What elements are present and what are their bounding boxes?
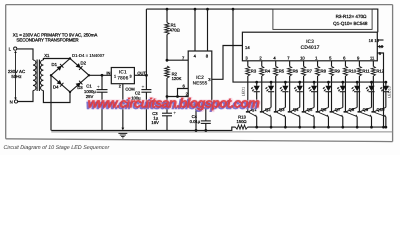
wire IC3 pin 6 to R10 xyxy=(344,61,346,67)
label Q7 xyxy=(335,107,341,112)
LED6 xyxy=(322,82,331,107)
svg-text:SECONDARY TRANSFORMER: SECONDARY TRANSFORMER xyxy=(16,37,79,42)
svg-text:+: + xyxy=(97,84,100,90)
terminal L xyxy=(9,47,17,52)
svg-text:150Ω: 150Ω xyxy=(236,119,246,124)
label R3-R12= 470 xyxy=(336,14,367,19)
wire IC3 pin 15 stub xyxy=(377,39,383,41)
svg-text:IC3: IC3 xyxy=(306,39,314,45)
wire IC3 pin 11 to R12 xyxy=(372,61,374,67)
note box R3-R12 Q1-Q10 xyxy=(273,9,372,29)
svg-text:+: + xyxy=(141,84,144,90)
label R2 120K xyxy=(172,71,182,81)
label IC3 output pin 4 xyxy=(273,56,276,61)
node R1 R2 pin7 junction xyxy=(166,59,169,62)
svg-text:R9: R9 xyxy=(335,68,341,73)
node LED1 anode xyxy=(255,81,258,84)
label IN pin 1 xyxy=(106,71,116,79)
svg-text:120K: 120K xyxy=(172,76,182,81)
label Q10 xyxy=(377,107,386,112)
LED7 xyxy=(337,82,346,107)
svg-text:Circuit Diagram of 10 Stage LE: Circuit Diagram of 10 Stage LED Sequence… xyxy=(4,145,110,151)
wire IC2 pin 4 to rail xyxy=(194,8,197,51)
node LED10 anode xyxy=(384,81,387,84)
bridge vertex junction dots xyxy=(50,57,90,93)
label Q1-Q10= BC548 xyxy=(333,21,368,26)
capacitor C3 xyxy=(162,97,176,131)
label Q8 xyxy=(349,107,355,112)
svg-text:IC2: IC2 xyxy=(196,75,204,81)
ground symbol xyxy=(118,128,127,138)
wire +6V to LED anode rail xyxy=(233,9,386,82)
resistor R1 xyxy=(165,9,169,60)
node Q7 emitter xyxy=(341,126,344,129)
node Q3 emitter xyxy=(284,126,287,129)
label IC3 output pin 3 xyxy=(245,56,248,61)
wire IC3 pin 4 to R5 xyxy=(275,61,277,67)
wire IC3 pin 5 to R9 xyxy=(331,61,333,67)
transistor Q4 xyxy=(288,107,301,127)
label R7 xyxy=(307,68,313,73)
node Q5 emitter xyxy=(313,126,316,129)
label D3 xyxy=(77,85,83,90)
label COM pin 2 xyxy=(119,85,135,92)
+6V vertical wire xyxy=(145,9,147,90)
LED4 xyxy=(293,82,302,107)
label R8 xyxy=(321,68,327,73)
svg-text:R3: R3 xyxy=(251,68,257,73)
node LED9 anode xyxy=(370,81,373,84)
svg-text:R7: R7 xyxy=(307,68,313,73)
svg-text:470Ω: 470Ω xyxy=(170,27,180,32)
wire IC3 pin 9 to R11 xyxy=(358,61,360,67)
label R13 150 xyxy=(236,114,246,124)
node Q4 emitter xyxy=(298,126,301,129)
node LED5 anode xyxy=(313,81,316,84)
label pin 3 xyxy=(208,77,211,82)
svg-text:R5: R5 xyxy=(279,68,285,73)
svg-text:Q2: Q2 xyxy=(265,107,271,112)
diode D1 xyxy=(57,64,64,71)
watermark xyxy=(86,96,260,112)
svg-text:Q3: Q3 xyxy=(279,107,285,112)
svg-text:2: 2 xyxy=(119,85,121,89)
wire N to transformer primary bottom xyxy=(18,91,33,102)
label Q1 xyxy=(251,107,257,112)
diode D3 xyxy=(76,81,83,88)
svg-text:7806: 7806 xyxy=(117,76,128,82)
svg-text:R12: R12 xyxy=(376,68,384,73)
transformer X1 secondary winding xyxy=(40,60,43,91)
node LED2 anode xyxy=(270,81,273,84)
resistor R4 xyxy=(260,66,264,111)
svg-text:R6: R6 xyxy=(293,68,299,73)
mains arrow line between L and N xyxy=(14,51,17,100)
label IC3 output pin 1 xyxy=(315,56,318,61)
node LED8 anode xyxy=(356,81,359,84)
svg-text:IN: IN xyxy=(106,71,110,76)
label C1 1000u 25V xyxy=(84,83,96,99)
wire L to transformer primary top xyxy=(17,49,33,60)
label R3 xyxy=(251,68,257,73)
node R1 top xyxy=(166,8,169,11)
+6V top supply rail xyxy=(146,9,377,32)
svg-text:Q1-Q10= BC548: Q1-Q10= BC548 xyxy=(333,21,368,26)
label D2 xyxy=(81,60,87,65)
node LED7 anode xyxy=(341,81,344,84)
svg-text:COM: COM xyxy=(125,86,134,91)
label IC3 output pin 5 xyxy=(329,56,332,61)
LED5 xyxy=(308,82,317,107)
wire secondary top to bridge top vertex xyxy=(43,59,70,61)
svg-text:R4: R4 xyxy=(265,68,271,73)
wire IC3 pin 3 to R3 xyxy=(247,61,249,67)
resistor R10 xyxy=(343,66,347,111)
wire IC3 pin 2 to R4 xyxy=(261,61,263,67)
svg-text:C1: C1 xyxy=(86,83,92,88)
svg-text:D3: D3 xyxy=(77,85,83,90)
svg-text:11: 11 xyxy=(370,56,375,61)
transformer note text xyxy=(13,32,98,42)
node Q6 emitter xyxy=(327,126,330,129)
node Q1 emitter xyxy=(255,126,258,129)
transistor Q8 xyxy=(344,107,358,127)
node Q10 emitter xyxy=(384,126,387,129)
transformer X1 core xyxy=(37,60,39,92)
transistor Q6 xyxy=(316,107,330,127)
label Q9 xyxy=(363,107,369,112)
resistor R11 xyxy=(357,66,361,111)
ground rail left section xyxy=(51,127,235,130)
svg-text:10: 10 xyxy=(300,56,305,61)
svg-text:0.01µ: 0.01µ xyxy=(190,119,201,124)
wire to IC2 pin 6 xyxy=(178,84,189,97)
label Q6 xyxy=(321,107,327,112)
LED9 xyxy=(365,82,374,107)
svg-text:50Hz: 50Hz xyxy=(11,74,21,79)
node Q2 emitter xyxy=(270,126,273,129)
node LED rail feed xyxy=(232,8,235,11)
label IC3 output pin 6 xyxy=(343,56,346,61)
counter IC3 CD4017 box xyxy=(242,32,377,61)
svg-text:R3-R12= 470Ω: R3-R12= 470Ω xyxy=(336,14,367,19)
label pin 4 xyxy=(194,53,197,58)
svg-text:R8: R8 xyxy=(321,68,327,73)
wire IC3 pin 13 stub xyxy=(377,46,383,48)
svg-text:16: 16 xyxy=(369,38,374,43)
capacitor C4 xyxy=(201,105,211,132)
label C3 1u 16V xyxy=(151,111,159,125)
wire IC1 OUT to +6V node xyxy=(134,74,147,77)
label OUT pin 3 xyxy=(129,71,146,79)
label D1 xyxy=(52,62,58,67)
resistor R12 xyxy=(371,66,375,111)
svg-text:CD4017: CD4017 xyxy=(300,45,319,51)
svg-text:Q9: Q9 xyxy=(363,107,369,112)
svg-text:Q6: Q6 xyxy=(321,107,327,112)
label R12 xyxy=(376,68,384,73)
label pin 16 xyxy=(369,38,374,43)
wire junction to IC2 pin 2 xyxy=(166,91,189,98)
label C4 0.01u xyxy=(190,114,201,124)
transistor Q5 xyxy=(302,107,315,127)
svg-text:Q5: Q5 xyxy=(307,107,313,112)
svg-text:Q8: Q8 xyxy=(349,107,355,112)
resistor R2 xyxy=(165,66,169,97)
resistor R7 xyxy=(302,66,306,111)
LED2 xyxy=(265,82,274,107)
transistor Q10 xyxy=(371,107,386,127)
wire IC3 pin 8 stub to ground xyxy=(377,53,385,129)
caption text xyxy=(4,145,110,151)
wire IC3 pin 10 to R7 xyxy=(303,61,305,67)
diode D4 xyxy=(57,80,64,87)
node Q9 emitter xyxy=(370,126,373,129)
label pin 15 xyxy=(374,38,379,43)
svg-text:R10: R10 xyxy=(348,68,356,73)
label Q2 xyxy=(265,107,271,112)
node Q8 emitter xyxy=(356,126,359,129)
label Q5 xyxy=(307,107,313,112)
svg-text:3: 3 xyxy=(129,75,131,79)
label IC3 output pin 11 xyxy=(370,56,375,61)
wire IC1 COM to ground xyxy=(122,84,124,129)
regulator IC1 7806 box xyxy=(111,68,134,84)
capacitor C2 xyxy=(141,84,151,130)
svg-text:D4: D4 xyxy=(53,85,59,90)
resistor R3 xyxy=(246,66,250,111)
svg-text:D1: D1 xyxy=(52,62,58,67)
resistor R13 xyxy=(236,125,248,129)
label LED10 xyxy=(387,86,391,98)
label 230V AC 50Hz xyxy=(8,69,25,79)
transistor Q7 xyxy=(330,107,344,127)
label pin 13 xyxy=(379,44,384,49)
node C1 junction xyxy=(101,74,104,77)
node LED6 anode xyxy=(327,81,330,84)
node LED4 anode xyxy=(298,81,301,84)
resistor R5 xyxy=(274,66,278,111)
svg-text:14: 14 xyxy=(245,45,250,50)
svg-text:Q4: Q4 xyxy=(293,107,299,112)
label LED1 xyxy=(242,87,246,97)
label pin 8 xyxy=(206,53,209,58)
bridge rectifier diamond wires xyxy=(51,59,89,93)
transistor Q3 xyxy=(274,107,286,127)
svg-text:LED10: LED10 xyxy=(387,86,391,98)
label IC3 output pin 7 xyxy=(287,56,290,61)
label D1-D4 = 1N4007 xyxy=(72,53,105,58)
wire IC3 pin 7 to R6 xyxy=(289,61,291,67)
node LED3 anode xyxy=(284,81,287,84)
LED10 xyxy=(380,82,389,107)
transistor Q2 xyxy=(260,107,272,127)
terminal N xyxy=(10,100,18,105)
label pin 8 of IC3 xyxy=(379,51,382,56)
svg-text:D2: D2 xyxy=(81,60,87,65)
svg-text:16V: 16V xyxy=(151,120,159,125)
label Q4 xyxy=(293,107,299,112)
diode D2 xyxy=(76,63,83,70)
wire IC2 pin 3 output to IC3 pin 14 clock xyxy=(212,46,243,80)
label IC3 output pin 2 xyxy=(259,56,262,61)
wire bridge positive to IC1 input xyxy=(89,74,111,76)
label R5 xyxy=(279,68,285,73)
label Q3 xyxy=(279,107,285,112)
LED1 xyxy=(250,82,259,107)
svg-text:X1: X1 xyxy=(44,53,50,58)
svg-text:www.circuitsan.blogspot.com: www.circuitsan.blogspot.com xyxy=(88,96,260,111)
LED8 xyxy=(351,82,360,107)
resistor R6 xyxy=(288,66,292,111)
svg-text:Q10: Q10 xyxy=(377,107,386,112)
transistor Q1 xyxy=(246,107,258,127)
transformer X1 primary winding xyxy=(33,60,36,91)
LED3 xyxy=(279,82,288,107)
svg-text:D1-D4 = 1N4007: D1-D4 = 1N4007 xyxy=(72,53,105,58)
transistor Q9 xyxy=(358,107,373,127)
svg-text:Q7: Q7 xyxy=(335,107,341,112)
label D4 xyxy=(53,85,59,90)
emitter rail xyxy=(248,126,387,128)
svg-text:NE555: NE555 xyxy=(193,81,208,87)
label R1 470 xyxy=(170,23,180,33)
label C2 100u xyxy=(131,91,141,101)
label IC3 output pin 9 xyxy=(357,56,360,61)
label R4 xyxy=(265,68,271,73)
wire IC2 pin 1 to ground xyxy=(195,105,198,132)
wire bridge negative to ground rail xyxy=(50,75,52,130)
wire IC3 pin 1 to R8 xyxy=(317,61,319,67)
label X1 xyxy=(44,53,50,58)
wire secondary bottom to bridge bottom vertex xyxy=(43,91,70,103)
resistor R8 xyxy=(315,66,319,111)
svg-text:N: N xyxy=(10,100,13,105)
label R9 xyxy=(335,68,341,73)
wire to IC2 pin 7 xyxy=(167,55,188,60)
svg-text:R11: R11 xyxy=(362,68,370,73)
wire IC2 pin 8 to rail xyxy=(206,8,209,51)
label R6 xyxy=(293,68,299,73)
svg-text:1: 1 xyxy=(114,75,116,79)
capacitor C1 xyxy=(97,75,108,130)
label pin 14 xyxy=(245,45,250,50)
label R11 xyxy=(362,68,370,73)
timer IC2 NE555 box xyxy=(188,51,212,105)
resistor R9 xyxy=(329,66,333,111)
label IC3 output pin 10 xyxy=(300,56,305,61)
label R10 xyxy=(348,68,356,73)
